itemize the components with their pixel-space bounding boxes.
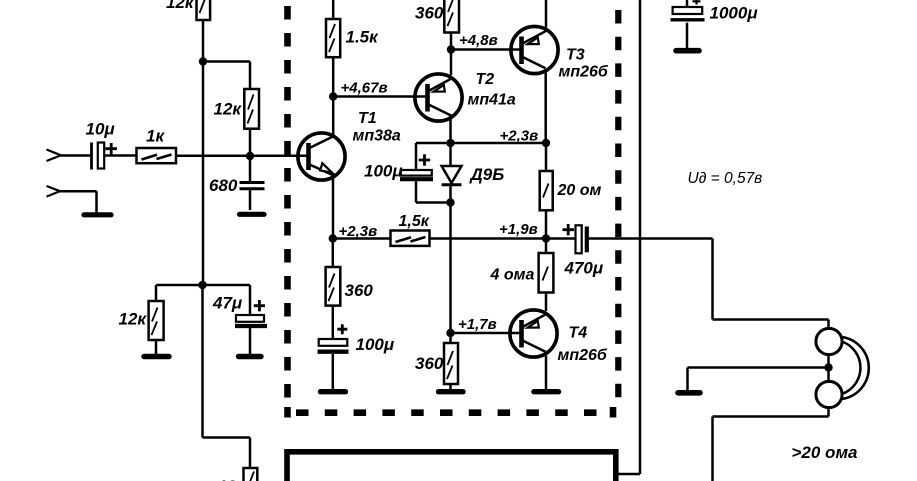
wire node to T2 base bbox=[333, 95, 427, 98]
svg-text:T1: T1 bbox=[358, 110, 377, 127]
wire T2 emitter up bbox=[450, 50, 453, 76]
wire +2,3v link bbox=[451, 142, 547, 145]
resistor 12k bottom (cut) bbox=[218, 468, 258, 481]
wire left long down bbox=[203, 285, 251, 468]
svg-text:+2,3в: +2,3в bbox=[500, 128, 539, 145]
resistor 360 T4 bbox=[415, 333, 458, 384]
resistor 1,5k horizontal bbox=[391, 213, 430, 246]
node +1,9v bbox=[542, 234, 550, 242]
svg-text:+4,67в: +4,67в bbox=[341, 80, 388, 97]
wire between earpieces bbox=[827, 355, 830, 382]
wire input line to T1 base bbox=[176, 154, 309, 157]
ground mid wire bbox=[688, 368, 829, 391]
wire bbox=[104, 154, 136, 157]
svg-text:470μ: 470μ bbox=[564, 259, 604, 278]
svg-text:T4: T4 bbox=[569, 325, 588, 342]
svg-text:20 ом: 20 ом bbox=[557, 182, 602, 199]
svg-text:1000μ: 1000μ bbox=[710, 4, 759, 23]
wire bbox=[249, 129, 252, 156]
node A bbox=[199, 57, 207, 65]
svg-text:T3: T3 bbox=[566, 47, 585, 64]
svg-text:4 ома: 4 ома bbox=[490, 267, 535, 284]
wire to 1,5k bbox=[333, 237, 391, 240]
junction left lower bbox=[198, 281, 206, 289]
dashed box right bottom corner bbox=[610, 407, 617, 418]
svg-text:360: 360 bbox=[415, 4, 444, 23]
capacitor 1000u bbox=[671, 0, 759, 48]
wire 1,5k to +1,9v node bbox=[430, 237, 547, 240]
wire output right bbox=[713, 239, 829, 330]
node T3 collector bbox=[542, 139, 550, 147]
capacitor 100u (beside diode) bbox=[364, 143, 451, 203]
wire 1.5k to node bbox=[332, 57, 335, 96]
node B bbox=[246, 152, 254, 160]
wire diode node down bbox=[449, 203, 452, 334]
resistor 1k bbox=[137, 127, 177, 164]
wire bbox=[60, 191, 97, 213]
node +4,8v bbox=[447, 45, 455, 53]
svg-text:1к: 1к bbox=[146, 127, 165, 146]
ground 47u bbox=[239, 354, 262, 359]
svg-text:+1,9в: +1,9в bbox=[499, 221, 538, 238]
amplifier box (solid) bbox=[287, 452, 616, 481]
node +4,67v bbox=[329, 92, 337, 100]
wire headphone bottom bbox=[713, 408, 829, 481]
wire bbox=[61, 154, 92, 157]
resistor 1.5k vertical bbox=[326, 19, 379, 57]
svg-text:12к: 12к bbox=[166, 0, 195, 12]
svg-text:1.5к: 1.5к bbox=[346, 28, 380, 47]
input terminal J1 bbox=[47, 150, 62, 162]
wire T3 collector down bbox=[544, 72, 547, 144]
wire T3 emitter up bbox=[545, 0, 548, 28]
svg-text:360: 360 bbox=[415, 354, 444, 373]
wire vertical left long bbox=[202, 62, 205, 286]
resistor 4 oma bbox=[490, 239, 554, 293]
node T2 collector bbox=[446, 139, 454, 147]
svg-text:12к: 12к bbox=[214, 100, 243, 119]
power rail line bbox=[619, 0, 641, 474]
svg-text:12к: 12к bbox=[218, 477, 247, 481]
input terminal J2 bbox=[47, 186, 61, 197]
dashed box left edge bbox=[284, 6, 291, 404]
wire node to T3 base bbox=[451, 48, 522, 51]
wire 4oma to T4 bbox=[545, 293, 548, 312]
resistor 360 top (cut) bbox=[415, 0, 459, 33]
wire bbox=[545, 210, 548, 238]
ground 1000u bbox=[676, 48, 699, 54]
capacitor 10u input bbox=[86, 120, 118, 170]
svg-text:мп26б: мп26б bbox=[558, 347, 608, 364]
transistor Q T3 mp26b bbox=[511, 26, 609, 80]
resistor 12k bottom-left bbox=[119, 301, 164, 340]
wire above 1.5k bbox=[332, 0, 335, 19]
svg-text:мп38а: мп38а bbox=[353, 128, 401, 145]
ground input bbox=[84, 212, 111, 217]
svg-text:12к: 12к bbox=[119, 310, 148, 329]
node diode bottom bbox=[446, 198, 454, 206]
capacitor 47u bbox=[203, 285, 268, 354]
headband arc bbox=[842, 337, 869, 399]
svg-text:+4,8в: +4,8в bbox=[459, 32, 498, 49]
svg-text:>20 ома: >20 ома bbox=[792, 443, 858, 462]
capacitor 680 bbox=[209, 156, 265, 210]
wire T4 collector down bbox=[545, 356, 548, 390]
node headphone mid bbox=[824, 363, 832, 371]
svg-text:U∂ = 0,57в: U∂ = 0,57в bbox=[688, 170, 763, 187]
wire 470u right bbox=[589, 237, 713, 240]
headphone bottom earpiece bbox=[816, 381, 842, 407]
ground 100u bottom bbox=[321, 389, 346, 394]
capacitor 100u bottom bbox=[318, 306, 395, 389]
svg-text:Д9Б: Д9Б bbox=[469, 165, 505, 184]
svg-text:10μ: 10μ bbox=[86, 120, 116, 139]
transistor Q T4 mp26b bbox=[510, 310, 608, 364]
wire node to T4 base bbox=[451, 332, 522, 335]
dashed box right edge bbox=[615, 10, 621, 404]
svg-text:мп41а: мп41а bbox=[468, 92, 516, 109]
transistor Q T1 mp38a bbox=[298, 110, 401, 180]
svg-text:+1,7в: +1,7в bbox=[458, 316, 497, 333]
svg-text:T2: T2 bbox=[476, 71, 495, 88]
headphone top earpiece bbox=[816, 328, 842, 354]
ground T4 bbox=[534, 389, 559, 394]
wire T2 collector down bbox=[449, 119, 452, 143]
resistor 12k top (cut) bbox=[166, 0, 210, 20]
resistor 360 middle bbox=[326, 239, 374, 306]
svg-text:100μ: 100μ bbox=[364, 162, 403, 181]
svg-text:1,5к: 1,5к bbox=[399, 213, 430, 230]
svg-text:47μ: 47μ bbox=[212, 294, 243, 313]
diode D9B bbox=[442, 143, 505, 203]
capacitor 470u bbox=[546, 224, 604, 278]
wire T1 collector up bbox=[332, 97, 335, 135]
svg-text:мп26б: мп26б bbox=[559, 64, 609, 81]
node +2,3v emitter bbox=[329, 234, 337, 242]
node +1,7v bbox=[446, 329, 454, 337]
ground 680 bbox=[240, 212, 265, 217]
dashed box left bottom corner bbox=[284, 407, 291, 418]
wire vertical main left bbox=[202, 20, 205, 62]
wire to 12k bottom-left bbox=[156, 285, 203, 301]
dashed box bottom edge bbox=[296, 409, 612, 416]
wire T1 emitter down bbox=[332, 179, 335, 239]
resistor 20 om bbox=[540, 171, 602, 210]
svg-text:680: 680 bbox=[209, 176, 238, 195]
wire jog bbox=[203, 62, 250, 90]
ground 360 T4 bbox=[449, 384, 452, 389]
transistor Q T2 mp41a bbox=[415, 71, 516, 121]
ground 12k bl bbox=[155, 340, 158, 354]
svg-text:360: 360 bbox=[345, 281, 374, 300]
resistor 12k second bbox=[214, 89, 260, 129]
wire 360 to node bbox=[450, 33, 453, 50]
wire bbox=[545, 143, 548, 171]
svg-text:100μ: 100μ bbox=[356, 335, 395, 354]
